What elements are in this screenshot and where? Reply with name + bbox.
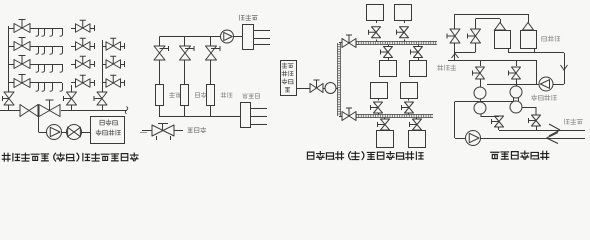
building B1 valve bbox=[371, 99, 383, 115]
building T2 valve bbox=[397, 21, 409, 42]
chiller 1 shell link bbox=[480, 99, 482, 102]
building T4 valve bbox=[411, 45, 423, 61]
building B4 valve bbox=[410, 118, 422, 132]
condenser supply header bbox=[448, 60, 537, 62]
chiller 1 evaporator bbox=[474, 102, 486, 114]
riser-B floor valve row 4 bbox=[102, 75, 125, 87]
riser-B floor valve row 3 bbox=[102, 56, 125, 68]
cooling water label bbox=[438, 65, 456, 70]
boiler 2 outlet bbox=[184, 106, 186, 117]
box label line2 bbox=[96, 130, 120, 135]
balance valve label bbox=[188, 127, 206, 132]
boiler 2 riser bbox=[184, 37, 186, 47]
boiler 1 valve bbox=[154, 46, 169, 60]
supply riser (building) bbox=[8, 26, 10, 92]
tower return line 2 bbox=[476, 18, 501, 20]
bottom main pipe bbox=[0, 110, 20, 112]
building B4 bbox=[409, 131, 426, 148]
cooling tower 2 bbox=[521, 31, 537, 49]
distributor label bbox=[242, 94, 259, 99]
branch 1 takeoff wire bbox=[9, 28, 14, 30]
chilled water label bbox=[565, 119, 583, 124]
tower return line 1 bbox=[455, 14, 528, 16]
flow arrow up bbox=[452, 54, 459, 59]
stray watermark dash bbox=[140, 132, 147, 134]
bottom main left stub bbox=[339, 116, 342, 118]
boiler 3 outlet bbox=[210, 106, 212, 117]
pump suction drop bbox=[38, 111, 40, 133]
branch 3 takeoff wire bbox=[9, 64, 14, 66]
building T3 bbox=[380, 61, 397, 77]
riser shutoff valve bbox=[3, 92, 15, 105]
plant pump bbox=[323, 88, 325, 90]
building B2 valve bbox=[402, 99, 414, 115]
riser-A floor valve row 3 bbox=[71, 56, 95, 68]
cooling tower funnel 2 bbox=[523, 23, 534, 31]
building B2 bbox=[401, 83, 418, 99]
chiller 2 condenser valve bbox=[509, 60, 521, 86]
branch 4 balancing valve bbox=[14, 75, 30, 88]
boiler/chiller box bbox=[91, 117, 125, 144]
balance valve outlet bbox=[174, 130, 183, 132]
chilled return downcomer bbox=[454, 102, 456, 139]
pump to network bbox=[336, 88, 338, 90]
building B3 bbox=[377, 131, 394, 148]
caption 3 bbox=[307, 152, 423, 160]
evap 1 outlet bbox=[481, 114, 499, 117]
boiler 1 outlet bbox=[159, 106, 161, 117]
branch 3 pipe bbox=[30, 64, 62, 66]
caption 1 bbox=[2, 153, 138, 161]
riser-A floor valve row 1 bbox=[71, 20, 95, 32]
hot water pump bbox=[220, 36, 222, 38]
branch 2 pipe bbox=[30, 46, 62, 48]
riser-A floor valve row 4 bbox=[71, 75, 95, 87]
branch 1 balancing valve bbox=[14, 20, 30, 33]
evap 2 outlet bbox=[522, 108, 536, 116]
building T1 valve bbox=[369, 21, 381, 42]
district riser (insulated) bbox=[338, 43, 341, 116]
pipe break mark bbox=[125, 107, 128, 114]
return arrow bbox=[547, 133, 559, 144]
riser B to main bbox=[102, 105, 104, 111]
plant box (district) bbox=[281, 61, 297, 96]
plant outlet bbox=[296, 88, 310, 90]
distributor outlets bbox=[251, 108, 268, 110]
boiler 1 label bbox=[170, 92, 181, 97]
boiler 3 valve bbox=[206, 46, 221, 60]
boiler 2 valve bbox=[180, 46, 195, 60]
building B1 bbox=[371, 83, 388, 99]
evap valve 1 bbox=[492, 116, 504, 130]
riser A lower stub bbox=[71, 85, 73, 92]
building B3 valve bbox=[378, 118, 390, 132]
branch 4 terminal units bbox=[36, 83, 63, 91]
branch 4 takeoff wire bbox=[9, 82, 14, 84]
boiler 3 vessel bbox=[207, 85, 215, 106]
condenser pump bbox=[539, 77, 553, 91]
chilled water supply wire bbox=[455, 101, 513, 103]
caption 4 bbox=[491, 151, 549, 159]
branch 2 takeoff wire bbox=[9, 46, 14, 48]
supply arrow bbox=[549, 124, 560, 136]
boiler 1 downpipe bbox=[159, 60, 161, 85]
boiler 3 downpipe bbox=[210, 60, 212, 85]
building T2 bbox=[395, 5, 412, 21]
condenser pump drop bbox=[564, 53, 566, 77]
cooling tower 1 bbox=[495, 31, 511, 49]
distributor box bbox=[241, 103, 251, 128]
riser A bottom valve bbox=[64, 92, 77, 105]
riser to main bbox=[8, 105, 10, 111]
balancing valve bbox=[152, 124, 174, 141]
main valve 2 bbox=[39, 100, 60, 117]
main valve 1 bbox=[20, 105, 38, 117]
zone outlets bbox=[254, 30, 270, 32]
tower outlet header bbox=[508, 49, 510, 53]
riser B bottom valve bbox=[94, 92, 107, 105]
hot water zone box bbox=[243, 25, 254, 50]
bottom district main (insulated) bbox=[356, 115, 433, 118]
boiler 3 label bbox=[221, 92, 232, 97]
boiler 2 vessel bbox=[181, 85, 189, 106]
branch 3 balancing valve bbox=[14, 56, 30, 69]
building T1 bbox=[367, 5, 384, 21]
branch 2 balancing valve bbox=[14, 38, 30, 51]
riser-B floor valve row 2 bbox=[102, 38, 125, 50]
valve drops join bbox=[454, 43, 456, 52]
top district main (insulated) bbox=[356, 42, 437, 45]
chiller 1 condenser bbox=[474, 87, 486, 99]
plant box text bbox=[282, 63, 293, 92]
chiller 1 condenser valve bbox=[473, 60, 485, 87]
evap valve 2 bbox=[529, 115, 541, 130]
boiler 2 label bbox=[195, 92, 206, 97]
chilled supply line out bbox=[499, 130, 585, 132]
chiller 2 condenser bbox=[510, 86, 522, 98]
interconnect wire bbox=[62, 132, 67, 134]
boiler 1 riser bbox=[159, 37, 161, 47]
branch 3 terminal units bbox=[36, 64, 63, 72]
boiler bottom header bbox=[160, 116, 241, 118]
chilled bottom line bbox=[481, 138, 586, 140]
building T3 valve bbox=[381, 45, 393, 61]
boiler header bbox=[160, 36, 221, 38]
top main valve bbox=[342, 35, 356, 48]
branch 4 pipe bbox=[30, 82, 62, 84]
riser A to main bbox=[71, 105, 73, 111]
top main left stub bbox=[339, 42, 342, 44]
boiler 1 vessel bbox=[156, 85, 164, 106]
building T4 bbox=[410, 61, 427, 77]
riser B bbox=[102, 40, 104, 92]
branch 1 pipe bbox=[30, 28, 62, 30]
pump to zone box bbox=[234, 36, 244, 38]
tower valve 1 bbox=[447, 29, 460, 43]
cooling tower funnel 1 bbox=[495, 23, 506, 31]
balance valve inlet bbox=[142, 130, 152, 132]
chiller 2 hx link bbox=[513, 98, 515, 101]
cooling tower label bbox=[542, 36, 560, 41]
wire to plant box bbox=[82, 132, 92, 134]
bottom main valve bbox=[342, 108, 356, 121]
hot water zone label bbox=[240, 15, 258, 20]
riser-A floor valve row 2 bbox=[71, 38, 95, 50]
pump/valve P2 bbox=[67, 125, 82, 140]
boiler 3 riser bbox=[210, 37, 212, 47]
chiller unit label bbox=[532, 95, 557, 100]
plant valve bbox=[310, 80, 323, 93]
tower valve 2 bbox=[468, 29, 481, 43]
pump to chillers wire bbox=[487, 84, 539, 86]
chiller 2 evaporator bbox=[510, 101, 522, 113]
branch 2 terminal units bbox=[36, 46, 63, 54]
chilled water pump bbox=[455, 138, 465, 140]
branch 1 terminal units bbox=[36, 28, 63, 36]
boiler 2 downpipe bbox=[184, 60, 186, 85]
flow arrow down bbox=[561, 65, 568, 70]
pump P1 bbox=[47, 125, 62, 140]
box label line1 bbox=[100, 120, 118, 125]
